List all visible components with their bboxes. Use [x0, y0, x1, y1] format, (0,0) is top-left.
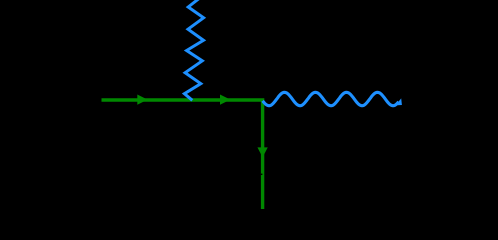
- photon wavy line outgoing right (blue sine): [263, 92, 399, 105]
- arrowhead at end of wavy photon: [395, 98, 402, 105]
- arrow on incoming electron segment: [137, 94, 147, 104]
- arrow on internal electron segment: [220, 94, 230, 104]
- node joint notch on vertical line: [261, 174, 263, 175]
- arrow on outgoing electron segment: [257, 147, 267, 157]
- photon zigzag incoming from top (blue): [184, 0, 203, 100]
- wire electron line: incoming horizontal then outgoing down (green L path): [102, 100, 263, 209]
